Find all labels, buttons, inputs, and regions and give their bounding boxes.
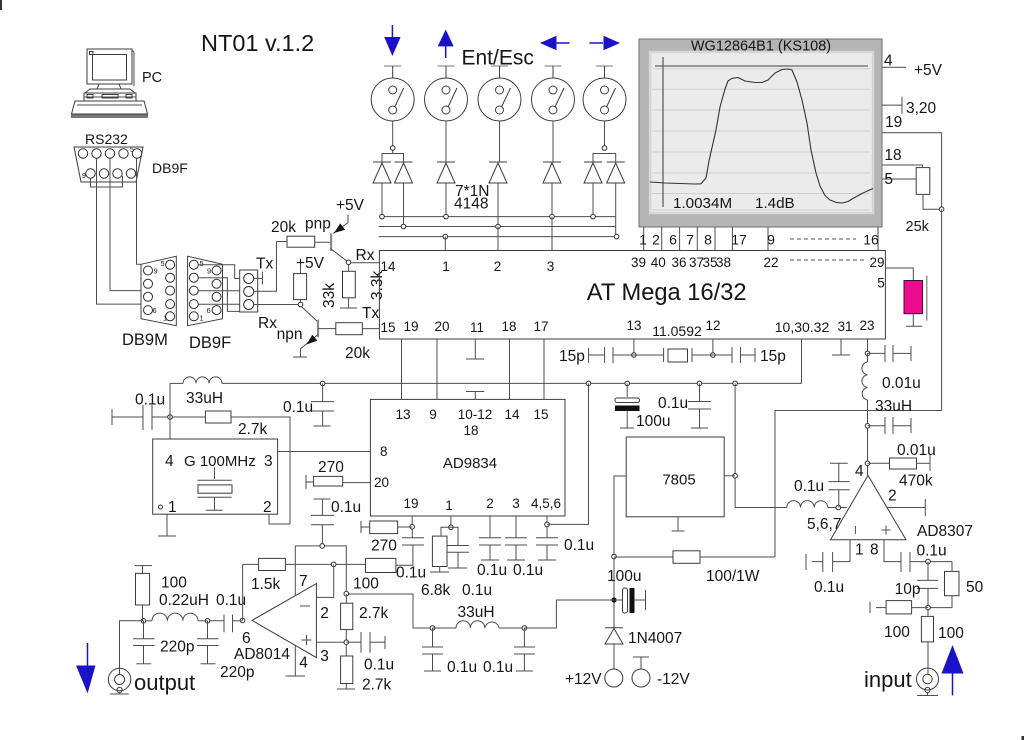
svg-text:-12V: -12V — [657, 671, 690, 688]
svg-text:10-12: 10-12 — [458, 407, 493, 422]
svg-text:9: 9 — [429, 407, 437, 422]
svg-text:100: 100 — [938, 625, 964, 642]
svg-text:8: 8 — [704, 232, 712, 248]
svg-text:33uH: 33uH — [186, 390, 223, 407]
svg-text:270: 270 — [318, 459, 344, 476]
svg-text:1: 1 — [639, 232, 647, 248]
svg-text:0.1u: 0.1u — [364, 657, 394, 674]
svg-text:4: 4 — [299, 654, 308, 671]
svg-text:1.4dB: 1.4dB — [755, 195, 795, 212]
svg-text:18: 18 — [463, 423, 478, 438]
svg-text:40: 40 — [651, 255, 666, 270]
svg-text:0.22uH: 0.22uH — [159, 592, 209, 609]
svg-text:2.7k: 2.7k — [238, 421, 268, 438]
svg-text:2: 2 — [494, 259, 502, 274]
svg-text:AT Mega 16/32: AT Mega 16/32 — [587, 280, 747, 306]
svg-text:100: 100 — [161, 574, 187, 591]
svg-text:0.1u: 0.1u — [917, 543, 947, 560]
svg-text:470k: 470k — [899, 473, 933, 490]
svg-text:10,30.32: 10,30.32 — [775, 319, 830, 335]
svg-text:pnp: pnp — [305, 216, 331, 233]
svg-text:100: 100 — [353, 575, 379, 592]
svg-text:1N4007: 1N4007 — [628, 630, 682, 647]
svg-text:7805: 7805 — [662, 472, 695, 489]
svg-text:1: 1 — [168, 499, 177, 516]
svg-text:2: 2 — [263, 499, 272, 516]
svg-text:G 100MHz: G 100MHz — [184, 453, 256, 470]
svg-text:output: output — [134, 670, 195, 695]
svg-text:4,5,6: 4,5,6 — [531, 496, 561, 511]
svg-text:36: 36 — [671, 255, 686, 270]
svg-text:DB9M: DB9M — [122, 331, 168, 349]
svg-text:29: 29 — [869, 255, 884, 270]
svg-text:RS232: RS232 — [85, 131, 128, 147]
svg-text:9: 9 — [154, 267, 158, 276]
svg-text:15p: 15p — [559, 348, 585, 365]
svg-text:6: 6 — [153, 306, 157, 315]
svg-text:20: 20 — [374, 475, 389, 490]
svg-text:+5V: +5V — [914, 62, 943, 79]
svg-text:17: 17 — [731, 232, 747, 248]
svg-text:15: 15 — [380, 320, 395, 335]
svg-text:20k: 20k — [345, 345, 370, 362]
svg-text:Tx: Tx — [256, 256, 273, 273]
svg-text:0.01u: 0.01u — [882, 375, 921, 392]
svg-text:19: 19 — [885, 114, 902, 131]
svg-text:33k: 33k — [321, 283, 338, 308]
svg-text:220p: 220p — [160, 639, 194, 656]
svg-text:15: 15 — [533, 407, 548, 422]
svg-text:1.5k: 1.5k — [251, 576, 281, 593]
svg-text:4: 4 — [165, 453, 174, 470]
svg-text:2: 2 — [888, 488, 897, 505]
svg-text:PC: PC — [142, 70, 162, 86]
svg-text:0.1u: 0.1u — [462, 582, 492, 599]
svg-text:0.1u: 0.1u — [216, 592, 246, 609]
svg-text:npn: npn — [277, 326, 303, 343]
svg-text:220p: 220p — [220, 664, 254, 681]
svg-text:22: 22 — [763, 255, 778, 270]
svg-text:Rx: Rx — [356, 247, 375, 264]
svg-text:2.7k: 2.7k — [362, 677, 392, 694]
svg-text:0.1u: 0.1u — [794, 478, 824, 495]
svg-text:5: 5 — [130, 147, 134, 154]
svg-text:270: 270 — [371, 538, 397, 555]
svg-text:11: 11 — [470, 320, 484, 335]
svg-text:9: 9 — [82, 173, 86, 180]
svg-text:DB9F: DB9F — [152, 160, 188, 176]
svg-text:0.1u: 0.1u — [135, 392, 165, 409]
svg-text:14: 14 — [504, 407, 520, 422]
svg-text:17: 17 — [533, 319, 548, 334]
svg-text:20k: 20k — [271, 219, 296, 236]
svg-text:1.0034M: 1.0034M — [673, 195, 732, 212]
svg-text:0.1u: 0.1u — [513, 562, 543, 579]
svg-text:19: 19 — [403, 319, 418, 334]
svg-text:2: 2 — [320, 605, 329, 622]
svg-text:3: 3 — [547, 259, 555, 274]
svg-text:AD8014: AD8014 — [234, 646, 290, 663]
svg-text:0.1u: 0.1u — [447, 659, 477, 676]
svg-text:+12V: +12V — [565, 671, 602, 688]
svg-text:20: 20 — [434, 319, 449, 334]
svg-text:10p: 10p — [895, 581, 921, 598]
svg-text:5,6,7: 5,6,7 — [807, 516, 841, 533]
svg-text:39: 39 — [631, 255, 646, 270]
svg-text:AD8307: AD8307 — [917, 523, 973, 540]
svg-text:19: 19 — [403, 496, 418, 511]
svg-text:38: 38 — [716, 255, 731, 270]
svg-text:0.1u: 0.1u — [283, 399, 313, 416]
svg-text:3: 3 — [264, 453, 273, 470]
svg-text:1: 1 — [163, 314, 167, 323]
svg-text:5: 5 — [200, 259, 204, 268]
svg-text:5: 5 — [877, 276, 885, 291]
svg-text:1: 1 — [200, 314, 204, 323]
svg-text:16: 16 — [863, 232, 879, 248]
svg-text:25k: 25k — [906, 219, 930, 235]
svg-text:33uH: 33uH — [875, 398, 912, 415]
svg-text:2: 2 — [652, 232, 660, 248]
svg-text:18: 18 — [501, 319, 516, 334]
svg-text:7: 7 — [686, 232, 694, 248]
svg-text:2.7k: 2.7k — [359, 605, 389, 622]
svg-text:1: 1 — [855, 542, 864, 559]
svg-text:100/1W: 100/1W — [706, 568, 760, 585]
svg-text:3,20: 3,20 — [906, 100, 937, 117]
svg-text:11.0592: 11.0592 — [652, 323, 702, 339]
svg-text:3: 3 — [512, 496, 520, 511]
svg-text:9: 9 — [767, 232, 775, 248]
svg-text:0.1u: 0.1u — [331, 499, 361, 516]
svg-text:31: 31 — [837, 319, 852, 334]
svg-text:NT01 v.1.2: NT01 v.1.2 — [201, 30, 314, 56]
svg-text:+5V: +5V — [336, 197, 365, 214]
svg-text:13: 13 — [395, 407, 410, 422]
svg-text:50: 50 — [966, 579, 984, 596]
svg-text:0.1u: 0.1u — [483, 659, 513, 676]
svg-text:1: 1 — [445, 498, 453, 513]
svg-text:Tx: Tx — [362, 305, 379, 322]
svg-text:0.1u: 0.1u — [564, 537, 594, 554]
svg-text:12: 12 — [705, 318, 720, 333]
svg-text:14: 14 — [380, 259, 396, 274]
svg-text:100u: 100u — [636, 413, 670, 430]
svg-text:6: 6 — [242, 630, 251, 647]
svg-text:6: 6 — [669, 232, 677, 248]
svg-text:0.1u: 0.1u — [396, 565, 426, 582]
svg-text:33uH: 33uH — [457, 604, 494, 621]
svg-text:7: 7 — [299, 573, 308, 590]
svg-text:4148: 4148 — [454, 196, 488, 213]
svg-text:5: 5 — [161, 259, 165, 268]
svg-text:input: input — [864, 667, 912, 692]
svg-text:3.3k: 3.3k — [369, 270, 386, 300]
svg-text:13: 13 — [626, 318, 641, 333]
svg-text:18: 18 — [884, 147, 901, 164]
svg-text:8: 8 — [380, 444, 388, 459]
svg-text:Rx: Rx — [258, 315, 277, 332]
svg-text:2: 2 — [486, 496, 494, 511]
svg-text:6.8k: 6.8k — [421, 582, 451, 599]
svg-text:8: 8 — [870, 542, 879, 559]
svg-text:100u: 100u — [607, 568, 641, 585]
svg-text:100: 100 — [884, 624, 910, 641]
svg-text:9: 9 — [207, 267, 211, 276]
svg-text:0.1u: 0.1u — [477, 562, 507, 579]
svg-text:4: 4 — [855, 463, 864, 480]
svg-text:23: 23 — [859, 318, 874, 333]
svg-text:1: 1 — [442, 259, 450, 274]
svg-text:15p: 15p — [760, 348, 786, 365]
svg-text:WG12864B1 (KS108): WG12864B1 (KS108) — [691, 39, 831, 55]
svg-text:3: 3 — [320, 648, 329, 665]
svg-text:DB9F: DB9F — [189, 334, 231, 352]
svg-text:AD9834: AD9834 — [443, 455, 497, 472]
svg-text:6: 6 — [207, 306, 211, 315]
svg-text:0.1u: 0.1u — [814, 579, 844, 596]
svg-text:0.1u: 0.1u — [658, 395, 688, 412]
